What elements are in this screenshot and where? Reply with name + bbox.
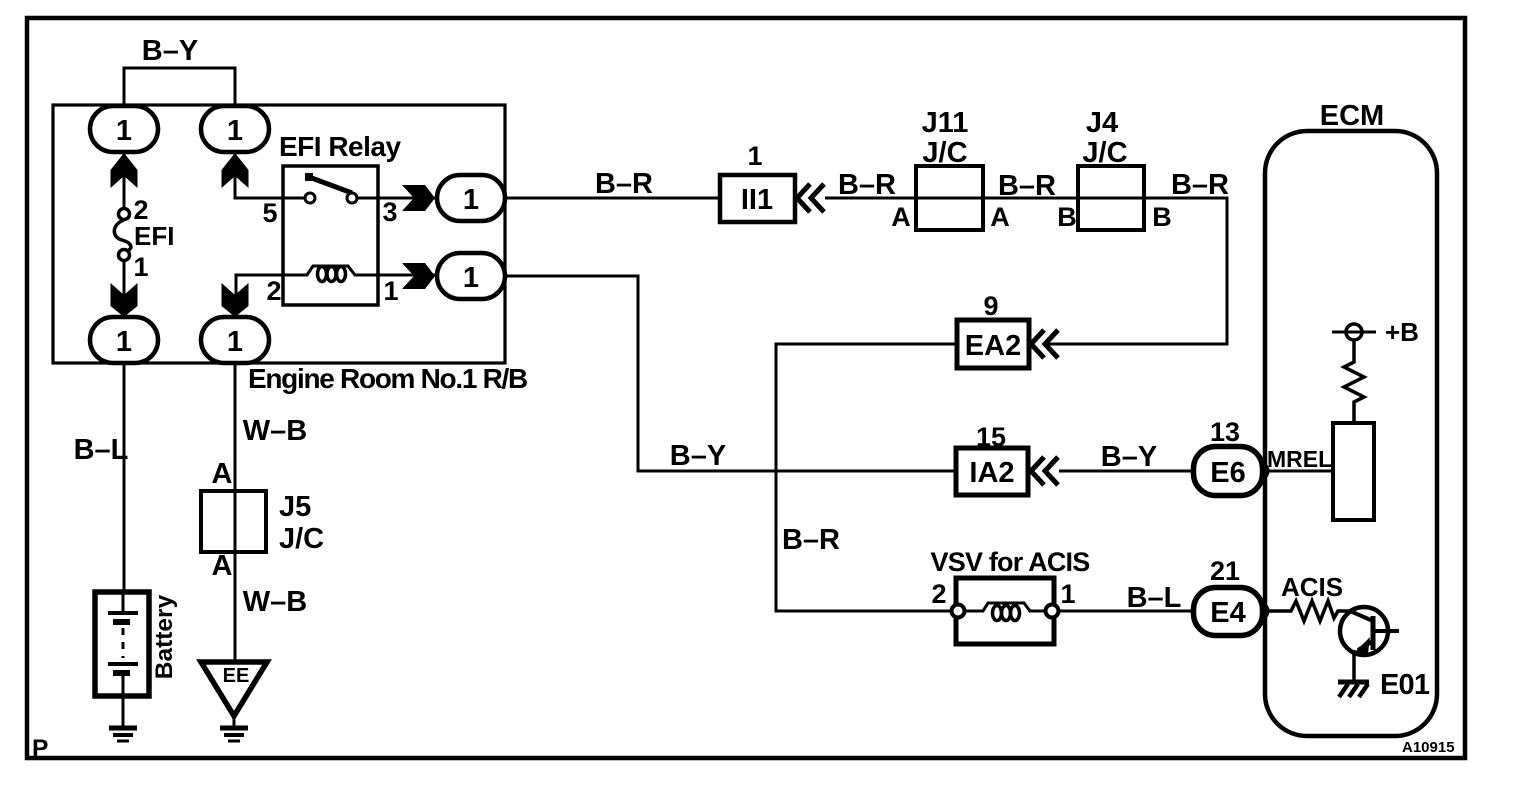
svg-text:II1: II1 [741, 184, 773, 216]
svg-text:A: A [891, 202, 911, 232]
resistor MREL pull-up [1344, 340, 1364, 423]
up arrow left [111, 153, 138, 188]
wire B-R from J4 down to EA2 [1048, 198, 1227, 344]
svg-text:EE: EE [223, 665, 250, 687]
chevrons at II1 [797, 184, 824, 212]
svg-text:Engine Room No.1 R/B: Engine Room No.1 R/B [248, 363, 527, 394]
wire MREL into ECM [1262, 470, 1333, 473]
junction J4 J/C box [1078, 166, 1144, 230]
wire to J11 [825, 197, 916, 200]
svg-text:1: 1 [116, 326, 132, 358]
svg-text:3: 3 [382, 197, 397, 227]
connector E4 [1194, 588, 1263, 636]
junction blob E4-ECM [1261, 604, 1270, 618]
ECM box [1265, 131, 1437, 736]
svg-text:1: 1 [133, 252, 148, 282]
wire B-R to II1 [505, 197, 720, 200]
svg-text:E01: E01 [1380, 669, 1430, 701]
svg-text:B: B [1152, 202, 1172, 232]
connector 1 relay output bottom [437, 253, 505, 299]
junction EA2 [957, 320, 1029, 368]
connector 1 bottom-mid [201, 317, 269, 363]
svg-text:B–L: B–L [1127, 582, 1182, 614]
svg-text:B–Y: B–Y [1101, 441, 1157, 473]
svg-text:B–R: B–R [595, 168, 653, 200]
svg-text:5: 5 [262, 198, 277, 228]
VSV coil [965, 603, 1045, 621]
relay switch contact left [305, 193, 315, 203]
VSV pin 1 circle [1046, 605, 1059, 618]
svg-text:9: 9 [983, 291, 998, 321]
svg-text:2: 2 [266, 276, 281, 306]
wire through J4 [1078, 197, 1144, 200]
svg-text:1: 1 [227, 326, 243, 358]
wire to J4 [983, 197, 1078, 200]
svg-text:A: A [990, 202, 1010, 232]
junction J5 J/C box [201, 491, 266, 552]
relay switch wire pin5 side [283, 197, 305, 200]
svg-text:+B: +B [1385, 317, 1419, 347]
wire EA2 to VSV (B-R) [776, 344, 957, 611]
svg-text:B–R: B–R [998, 170, 1056, 202]
connector E6 [1194, 447, 1263, 496]
svg-text:J5: J5 [279, 491, 311, 523]
ground (battery) [109, 728, 137, 741]
svg-text:B–R: B–R [1171, 169, 1229, 201]
svg-text:1: 1 [463, 262, 479, 294]
svg-text:B–Y: B–Y [142, 35, 198, 67]
up arrow mid [222, 153, 249, 188]
wire B-Y jumper loop [124, 68, 235, 108]
svg-text:MREL: MREL [1267, 446, 1332, 472]
chevrons at EA2 [1031, 330, 1058, 358]
relay coil block [1333, 423, 1374, 520]
svg-text:21: 21 [1210, 556, 1240, 586]
wire IA2 to E6 [1059, 470, 1194, 473]
svg-text:EFI: EFI [134, 221, 174, 251]
svg-text:E4: E4 [1210, 597, 1245, 629]
wire EE to ground [233, 713, 236, 727]
svg-text:W–B: W–B [243, 415, 307, 447]
junction IA2 [956, 448, 1028, 495]
ground EE triangle [201, 662, 267, 716]
junction J11 J/C box [916, 166, 983, 230]
ground E01 [1338, 682, 1369, 697]
wire W-B [234, 363, 237, 662]
svg-text:1: 1 [463, 184, 479, 216]
svg-text:VSV for ACIS: VSV for ACIS [931, 547, 1090, 577]
svg-text:13: 13 [1210, 417, 1240, 447]
VSV pin 2 circle [952, 605, 965, 618]
chevrons at IA2 [1031, 457, 1058, 485]
svg-text:J/C: J/C [279, 523, 324, 555]
connector 1 relay output top [437, 175, 505, 221]
ground (EE) [220, 728, 248, 741]
svg-text:EFI Relay: EFI Relay [279, 131, 401, 162]
VSV box [956, 578, 1054, 644]
relay coil [283, 266, 437, 282]
wire relay coil to IA2 (B-Y) [505, 276, 956, 471]
svg-text:Battery: Battery [151, 594, 178, 679]
svg-text:1: 1 [383, 276, 398, 306]
junction II1 [720, 175, 795, 222]
fuse EFI [114, 209, 131, 261]
relay switch contact right [347, 193, 357, 203]
svg-text:A: A [212, 550, 233, 582]
svg-text:1: 1 [116, 115, 132, 147]
transistor Q (ACIS driver) [1340, 607, 1399, 681]
wire mid column to relay pin 5 [235, 152, 305, 198]
svg-text:J11: J11 [922, 107, 969, 139]
svg-text:P: P [32, 735, 48, 762]
svg-text:1: 1 [227, 115, 243, 147]
svg-text:J4: J4 [1086, 107, 1118, 139]
connector 1 top-mid [201, 106, 269, 152]
connector 1 top-left [90, 106, 158, 152]
svg-text:B–Y: B–Y [670, 440, 726, 472]
+B terminal [1332, 324, 1376, 340]
svg-text:A: A [212, 458, 233, 490]
svg-text:ECM: ECM [1320, 100, 1384, 132]
junction blob E6-ECM [1261, 464, 1270, 478]
battery [95, 592, 149, 726]
svg-text:W–B: W–B [243, 586, 307, 618]
right arrow top [402, 185, 435, 211]
svg-text:B–R: B–R [782, 524, 840, 556]
down arrow left [111, 283, 138, 317]
svg-text:IA2: IA2 [969, 457, 1014, 489]
svg-text:B–R: B–R [838, 169, 896, 201]
down arrow mid [222, 283, 249, 317]
svg-text:1: 1 [747, 141, 762, 171]
svg-text:B: B [1057, 202, 1077, 232]
right arrow bottom [402, 263, 435, 289]
svg-text:A10915: A10915 [1402, 739, 1455, 756]
svg-text:1: 1 [1060, 579, 1075, 609]
Engine Room No.1 R/B box [53, 105, 505, 363]
relay box [283, 166, 378, 305]
svg-text:B–L: B–L [74, 434, 129, 466]
wire left column lower [123, 260, 126, 317]
svg-text:EA2: EA2 [965, 330, 1021, 362]
wire B-L battery feed [123, 363, 126, 592]
resistor ACIS [1266, 601, 1350, 621]
connector 1 bottom-left [90, 317, 158, 363]
wire through J11 [916, 197, 983, 200]
wire relay pin 2 down to connector [236, 275, 283, 317]
svg-text:E6: E6 [1210, 457, 1245, 489]
svg-text:2: 2 [931, 579, 946, 609]
wire left column top [123, 152, 126, 209]
wire VSV to E4 [1059, 610, 1194, 613]
wire relay pin 3 [357, 197, 437, 200]
relay switch blade [309, 177, 352, 193]
